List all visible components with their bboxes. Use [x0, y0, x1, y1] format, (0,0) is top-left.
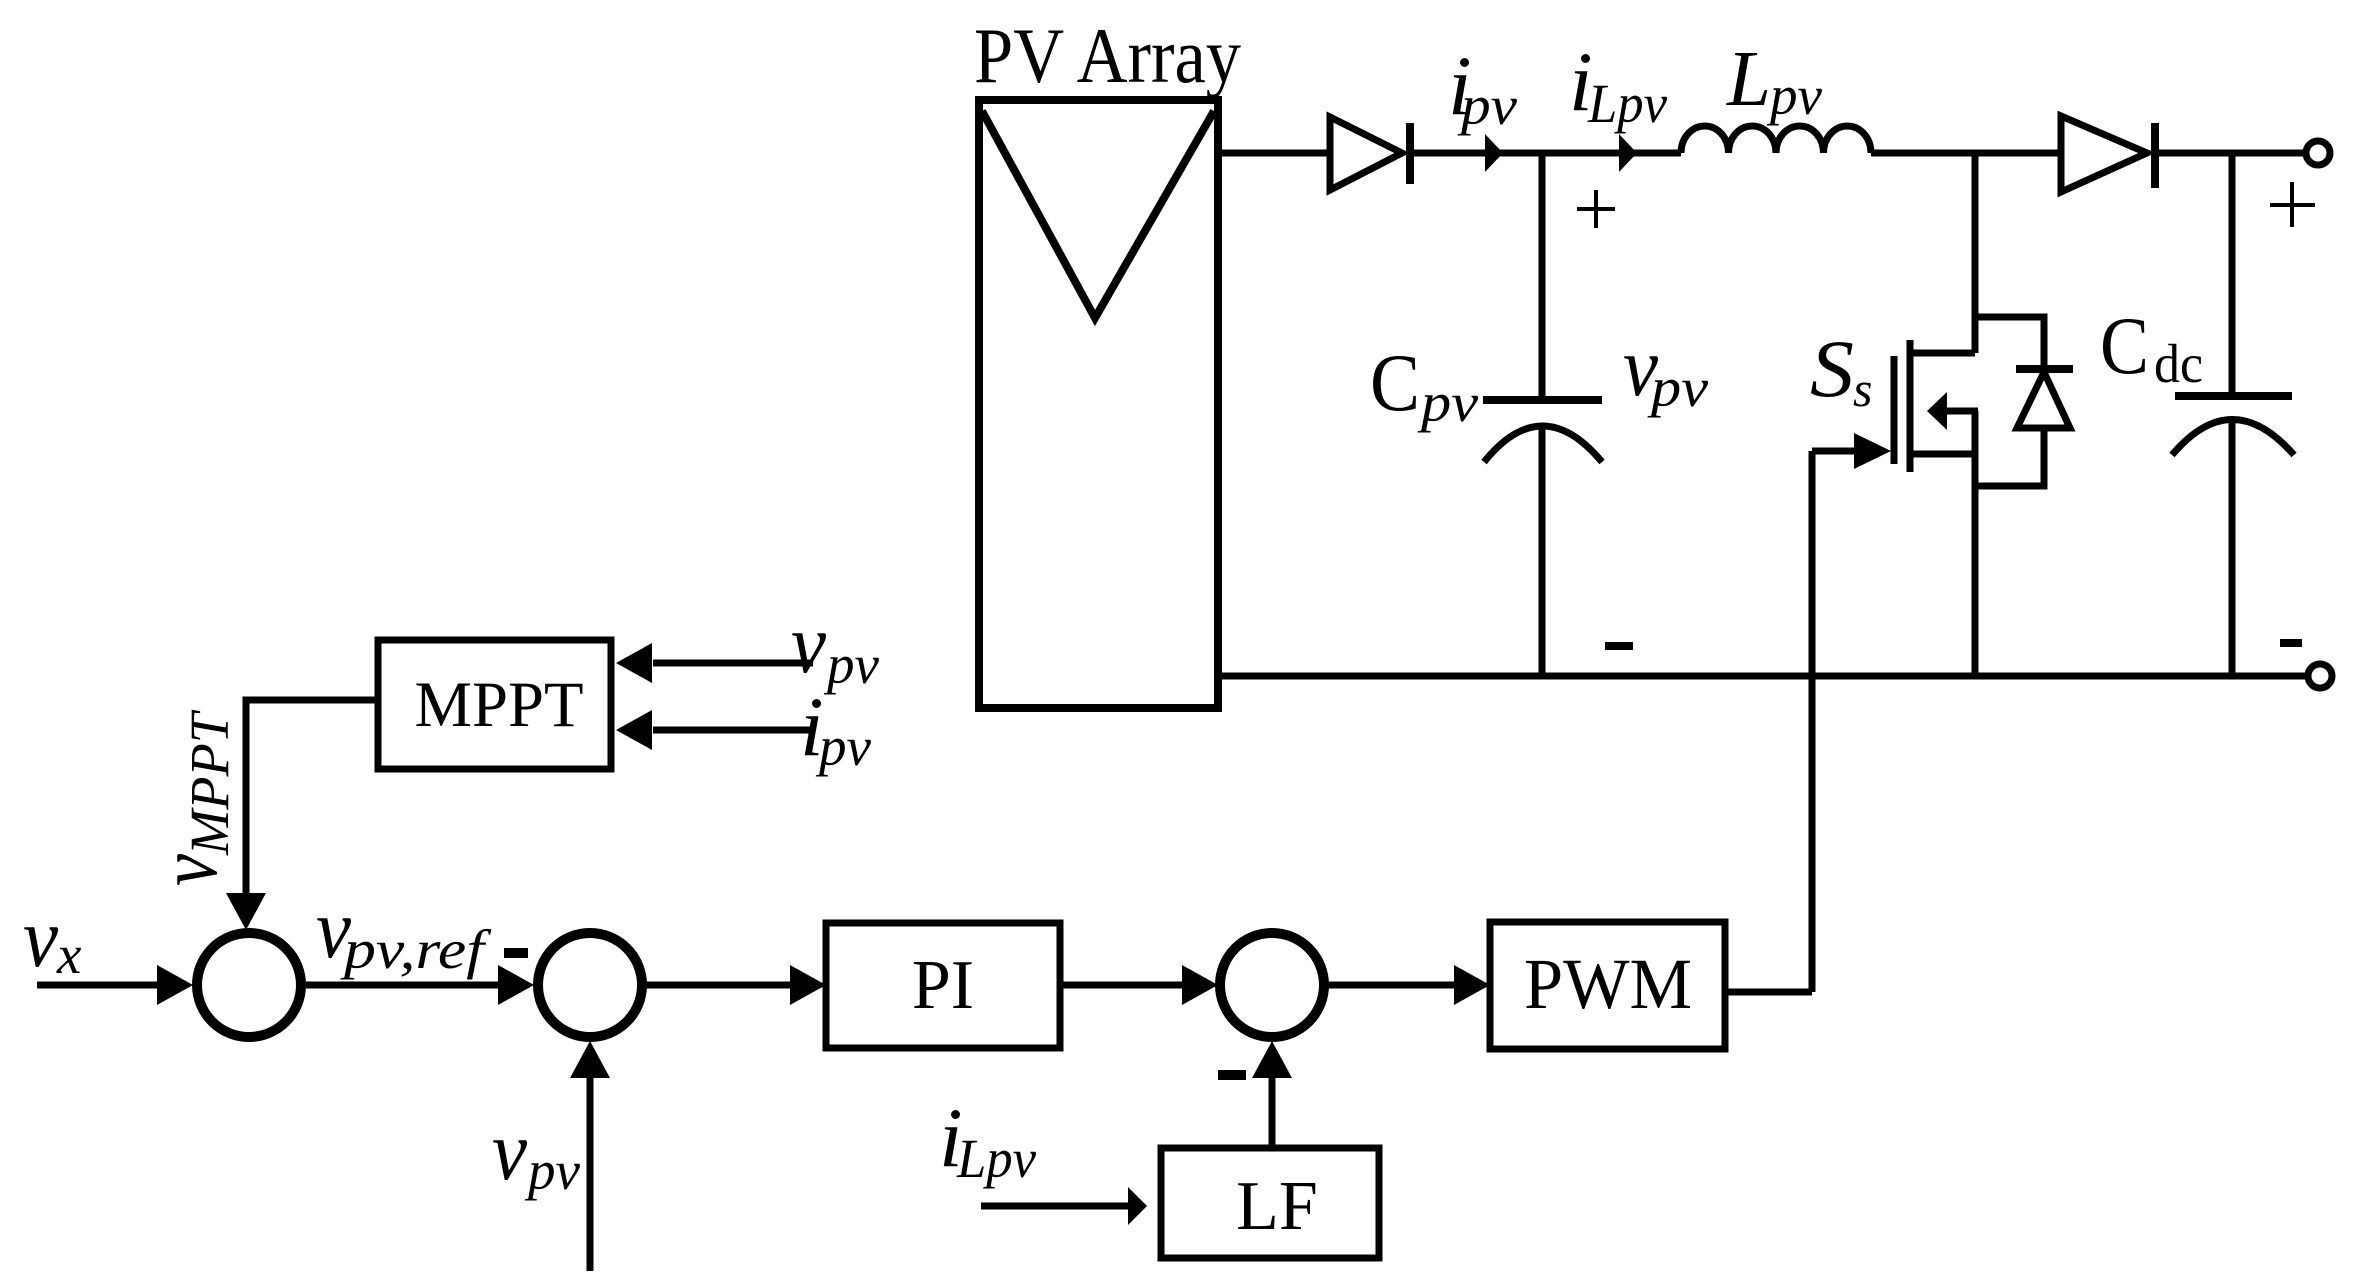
svg-text:L: L	[1726, 36, 1771, 123]
output terminal - (bottom right)	[2308, 664, 2332, 688]
svg-text:pv: pv	[823, 634, 880, 695]
capacitor Cdc	[2172, 396, 2294, 677]
label + (vpv polarity)	[1577, 190, 1615, 228]
diode D2	[2061, 116, 2155, 192]
svg-text:Lpv: Lpv	[1587, 73, 1668, 134]
arrow: LF up to summing junction 3	[1252, 1041, 1292, 1148]
svg-text:pv,ref: pv,ref	[339, 919, 491, 980]
label iLpv (LF input)	[939, 1091, 1037, 1189]
label ipv (MPPT input)	[800, 680, 872, 777]
svg-text:Lpv: Lpv	[956, 1128, 1037, 1189]
arrow ipv into MPPT	[616, 710, 813, 750]
label i_pv	[1448, 39, 1518, 136]
label - (summing junction 3)	[1218, 1070, 1246, 1080]
node: drain junction, wire down to MOSFET drain	[1972, 153, 1979, 353]
bottom rail wire	[1222, 673, 2308, 680]
svg-text:C: C	[2100, 300, 2149, 391]
svg-text:LF: LF	[1236, 1168, 1318, 1245]
label + (output)	[2270, 182, 2315, 227]
LF block	[1161, 1148, 1379, 1258]
label vMPPT (rotated)	[141, 710, 240, 886]
label PV Array	[974, 12, 1241, 99]
wire: D1 to inductor	[1410, 150, 1681, 157]
svg-text:pv: pv	[815, 716, 872, 777]
svg-text:dc: dc	[2154, 333, 2203, 394]
label - (summing junction 2)	[504, 948, 528, 958]
label Lpv	[1726, 36, 1823, 126]
wire: summing junction 2 to PI	[646, 965, 826, 1005]
label - (output)	[2280, 639, 2302, 647]
output terminal + (top right)	[2306, 141, 2330, 165]
wire: inductor to diode D2	[1871, 150, 2058, 157]
wire: PI to summing junction 3	[1060, 965, 1218, 1005]
label Cpv	[1370, 337, 1479, 433]
capacitor Cdc lead	[2229, 153, 2236, 393]
svg-text:x: x	[56, 924, 82, 985]
svg-text:s: s	[1853, 361, 1872, 417]
label MPPT	[415, 669, 584, 741]
svg-text:PWM: PWM	[1524, 944, 1692, 1024]
label vpv (MPPT input)	[791, 597, 880, 695]
node: Cpv junction / capacitor Cpv lead	[1539, 153, 1546, 397]
label vpv	[1623, 320, 1709, 418]
MPPT block	[378, 640, 611, 769]
capacitor Cpv	[1483, 400, 1602, 677]
label LF	[1236, 1168, 1318, 1245]
wire: summing junction 3 to PWM	[1326, 965, 1490, 1005]
svg-text:v: v	[492, 1104, 527, 1198]
label Ss	[1810, 323, 1872, 417]
svg-text:PI: PI	[912, 947, 974, 1024]
inductor Lpv	[1681, 126, 1871, 153]
wire: summing junction 1 to summing junction 2	[306, 965, 534, 1005]
svg-text:MPPT: MPPT	[179, 710, 240, 856]
arrow vpv into summing junction 2	[570, 1041, 610, 1271]
svg-text:S: S	[1810, 323, 1854, 414]
svg-text:v: v	[141, 854, 235, 886]
current arrow i_pv	[1485, 134, 1503, 172]
wire: D2 to output terminal	[2155, 150, 2307, 157]
svg-text:pv: pv	[1766, 65, 1823, 126]
svg-text:v: v	[791, 597, 826, 691]
body diode of Ss	[1975, 317, 2073, 486]
gate wire from PWM with arrowhead	[1725, 433, 1891, 992]
arrow iLpv into LF	[981, 1187, 1147, 1225]
PV array block	[979, 100, 1218, 708]
arrow vx into summing junction 1	[37, 965, 193, 1005]
label vx	[23, 891, 82, 985]
current arrow i_Lpv	[1619, 134, 1637, 172]
svg-text:v: v	[23, 891, 58, 985]
label PI	[912, 947, 974, 1024]
PWM block	[1490, 922, 1725, 1049]
wire vMPPT: MPPT output down to summing junction 1	[226, 700, 378, 930]
svg-text:pv: pv	[1647, 357, 1709, 418]
label vpv,ref	[316, 882, 492, 980]
svg-text:pv: pv	[1457, 75, 1518, 136]
MOSFET Ss	[1894, 340, 1978, 677]
svg-text:C: C	[1370, 337, 1420, 428]
svg-text:pv: pv	[1417, 372, 1479, 433]
diode D1	[1330, 117, 1410, 190]
summing junction 3	[1220, 933, 1324, 1037]
label PWM	[1524, 944, 1692, 1024]
arrow vpv into MPPT	[616, 643, 813, 683]
label vpv (feedback)	[492, 1104, 581, 1201]
svg-text:pv: pv	[524, 1140, 581, 1201]
summing junction 2	[538, 933, 642, 1037]
wire: PV array to diode D1	[1218, 150, 1331, 157]
label Cdc	[2100, 300, 2203, 394]
svg-text:PV Array: PV Array	[974, 12, 1241, 99]
label - (vpv polarity)	[1605, 642, 1633, 650]
summing junction 1	[197, 933, 301, 1037]
PI block	[826, 923, 1060, 1048]
label i_Lpv	[1569, 35, 1668, 134]
svg-text:MPPT: MPPT	[415, 669, 584, 741]
